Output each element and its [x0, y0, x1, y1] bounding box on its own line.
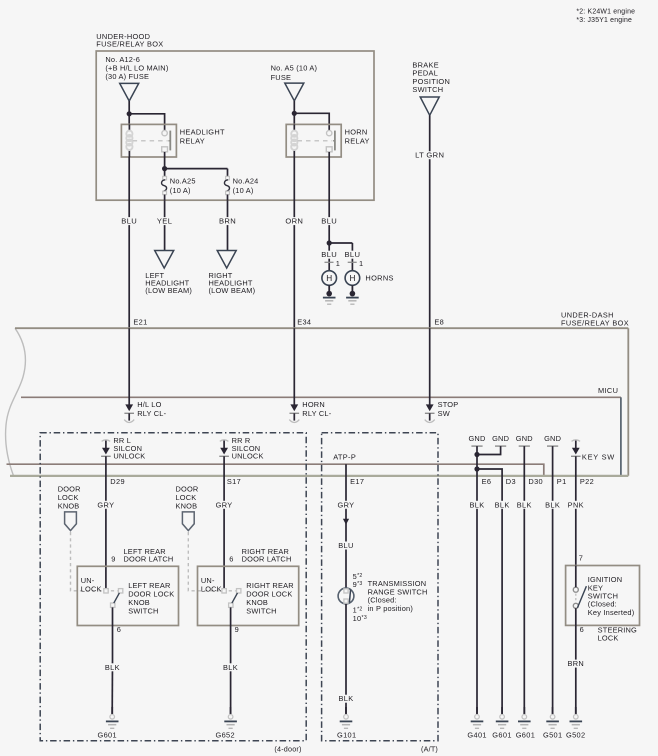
label GND 4: [544, 434, 561, 443]
tick GND 1: [471, 445, 482, 447]
svg-text:FUSE/RELAY BOX: FUSE/RELAY BOX: [96, 40, 163, 49]
label left headlight: [145, 271, 192, 295]
wire jog to D3: [477, 469, 512, 714]
svg-text:BLK: BLK: [469, 500, 484, 509]
label G401: [467, 731, 486, 740]
fuse A24: [224, 169, 229, 201]
left rear door latch box: [77, 566, 178, 625]
svg-text:7: 7: [579, 553, 583, 562]
wire GND2 join: [477, 446, 501, 454]
svg-text:UNLOCK: UNLOCK: [113, 452, 145, 461]
dash-dot box 4-door section: [40, 433, 306, 741]
fuse A24 label: [233, 176, 259, 195]
fuse A5 connector triangle: [285, 83, 304, 101]
wire RR R to S17: [223, 456, 225, 588]
label STOP SW: [438, 400, 459, 418]
svg-text:(A/T): (A/T): [421, 745, 438, 754]
label horn relay: [345, 127, 370, 145]
svg-text:1: 1: [336, 259, 340, 268]
wire node to horn 2: [329, 242, 352, 244]
svg-text:BRN: BRN: [567, 659, 584, 668]
svg-text:KNOB: KNOB: [58, 501, 80, 510]
pin 7 ignition switch: [579, 553, 583, 562]
label (A/T): [421, 745, 438, 754]
svg-text:SWITCH: SWITCH: [412, 85, 443, 94]
wire right latch to ground BLK: [221, 607, 241, 714]
svg-text:DOOR LATCH: DOOR LATCH: [242, 555, 292, 564]
wire branch to headlight relay switch: [129, 114, 164, 131]
label G601 b: [492, 731, 511, 740]
svg-text:BLU: BLU: [344, 250, 360, 259]
arrow STOP SW into MICU: [425, 404, 435, 422]
wire fuse A12-6 to headlight relay coil: [127, 101, 132, 124]
svg-text:BLK: BLK: [545, 500, 560, 509]
label G101: [337, 731, 356, 740]
door lock knob symbol right: [182, 512, 194, 531]
svg-text:BLK: BLK: [105, 663, 120, 672]
ground horn 2: [346, 285, 359, 304]
tick GND 2: [495, 445, 506, 447]
label IGNITION KEY SWITCH: [588, 575, 635, 617]
svg-text:GRY: GRY: [338, 500, 355, 509]
svg-text:E17: E17: [350, 477, 364, 486]
wire to horn 1 BLU: [320, 243, 339, 271]
svg-text:HORN: HORN: [302, 400, 325, 409]
label LEFT REAR DOOR LATCH: [124, 547, 174, 564]
note engine variants: [576, 8, 635, 24]
fuse A25 label: [170, 176, 196, 195]
connector E21: [133, 317, 147, 326]
ground horn 1: [323, 285, 336, 304]
ignition key switch box: [566, 566, 640, 626]
svg-text:HEADLIGHT: HEADLIGHT: [180, 127, 225, 136]
wire horn relay coil to E34 ORN: [284, 157, 305, 328]
connector P22: [580, 477, 594, 486]
svg-text:P1: P1: [557, 477, 567, 486]
svg-text:in P position): in P position): [368, 604, 413, 613]
wire headlight relay switch to fuses node: [162, 152, 167, 171]
label H/L LO RLY CL-: [137, 400, 166, 418]
pin 6 ignition switch: [580, 625, 584, 634]
label G601 c: [516, 731, 535, 740]
mechanical link right knob: [188, 532, 235, 591]
svg-text:BLK: BLK: [495, 500, 510, 509]
right rear door latch box: [198, 566, 299, 625]
svg-text:P22: P22: [580, 477, 594, 486]
label KEY SW: [582, 452, 615, 461]
wire horn relay switch BLU to horns node: [320, 152, 339, 246]
svg-text:ATP-P: ATP-P: [333, 452, 356, 461]
wire label GRY left: [95, 500, 116, 509]
connector E17: [350, 477, 364, 486]
svg-text:G652: G652: [216, 731, 235, 740]
tick GND 3: [519, 445, 530, 447]
under-dash box top edge: [15, 327, 628, 329]
horn 1: [322, 271, 337, 286]
wire left latch to ground BLK: [102, 607, 122, 714]
ground G601 left: [106, 707, 119, 728]
fuse A5 label: [271, 64, 318, 82]
wire fuse A25 to left headlight YEL: [155, 201, 174, 251]
svg-text:BLU: BLU: [338, 541, 353, 550]
wire GND3 to D30: [514, 446, 534, 714]
ground G501: [546, 707, 559, 728]
svg-text:*3: J35Y1 engine: *3: J35Y1 engine: [576, 17, 632, 24]
label UNDER-HOOD FUSE/RELAY BOX: [96, 32, 163, 49]
connector S17: [227, 477, 241, 486]
mechanical link left knob: [71, 532, 118, 591]
label RIGHT REAR DOOR LOCK KNOB SWITCH: [246, 581, 293, 616]
svg-text:BLU: BLU: [321, 250, 337, 259]
svg-text:G601: G601: [516, 731, 535, 740]
svg-text:No. A5 (10 A): No. A5 (10 A): [271, 64, 318, 73]
svg-text:GND: GND: [492, 434, 509, 443]
svg-text:PNK: PNK: [568, 500, 584, 509]
wire fuse A24 to right headlight BRN: [217, 201, 238, 251]
svg-text:E21: E21: [133, 317, 147, 326]
label GND 2: [492, 434, 509, 443]
wire E34 inside band: [293, 328, 295, 405]
brake pedal switch connector triangle: [420, 97, 439, 115]
label G502: [566, 731, 585, 740]
svg-text:GND: GND: [544, 434, 561, 443]
relay U1 headlight relay: [121, 124, 176, 157]
under-dash box torn left edge: [6, 328, 26, 476]
label (4-door): [274, 745, 301, 754]
connector E8: [434, 317, 444, 326]
ground G401: [471, 707, 484, 728]
label RR R SILCON UNLOCK: [232, 436, 264, 460]
label HORN RLY CL-: [302, 400, 331, 418]
under-hood fuse/relay box: [96, 51, 374, 200]
label STEERING LOCK: [598, 625, 637, 642]
door lock knob symbol left: [65, 512, 77, 531]
svg-text:BLK: BLK: [223, 663, 238, 672]
wire E21 inside band: [128, 328, 130, 405]
label LEFT REAR DOOR LOCK KNOB SWITCH: [128, 581, 174, 616]
arrow RR L SILCON UNLOCK from MICU: [101, 440, 111, 457]
label G652: [216, 731, 235, 740]
svg-text:G601: G601: [492, 731, 511, 740]
arrow on wire atp-p: [343, 519, 349, 525]
connector P1: [557, 477, 567, 486]
svg-text:H: H: [326, 274, 332, 283]
wire label GRY right: [214, 500, 235, 509]
wire node to fuse A24: [165, 168, 228, 170]
svg-text:9: 9: [235, 625, 239, 634]
label HORNS: [365, 274, 393, 283]
svg-text:S17: S17: [227, 477, 241, 486]
svg-text:G401: G401: [467, 731, 486, 740]
wire GND1 to E6: [467, 446, 487, 714]
svg-text:GND: GND: [516, 434, 533, 443]
svg-text:SWITCH: SWITCH: [246, 607, 276, 616]
wire brake pedal switch to E8 LT GRN: [414, 115, 445, 328]
switch ignition key: [573, 586, 586, 608]
ground G101: [340, 707, 353, 728]
svg-text:RLY CL-: RLY CL-: [302, 409, 331, 418]
svg-text:(30 A) FUSE: (30 A) FUSE: [105, 72, 149, 81]
svg-text:(10 A): (10 A): [233, 186, 254, 195]
svg-text:YEL: YEL: [157, 217, 172, 226]
label RIGHT REAR DOOR LATCH: [242, 547, 292, 564]
label GND 1: [468, 434, 485, 443]
connector D3: [506, 477, 516, 486]
label TRANSMISSION RANGE SWITCH: [368, 579, 428, 613]
connector D30: [528, 477, 543, 486]
label UNDER-DASH FUSE/RELAY BOX: [561, 311, 629, 328]
svg-text:1: 1: [359, 259, 363, 268]
ground G502: [570, 707, 583, 728]
svg-text:Key Inserted): Key Inserted): [588, 608, 635, 617]
label G601 left: [98, 731, 117, 740]
svg-text:GRY: GRY: [97, 500, 114, 509]
svg-text:(LOW BEAM): (LOW BEAM): [209, 286, 256, 295]
wire ATP-P to E17: [345, 464, 347, 588]
svg-text:G501: G501: [543, 731, 562, 740]
micu right edge: [620, 397, 622, 475]
label DOOR LOCK KNOB left: [58, 484, 81, 510]
svg-text:HORN: HORN: [345, 127, 368, 136]
svg-text:GRY: GRY: [216, 500, 233, 509]
svg-text:D3: D3: [506, 477, 516, 486]
label headlight relay: [180, 127, 225, 145]
wire GND4 to P1: [543, 446, 563, 714]
label ATP-P: [333, 452, 356, 461]
pin 1 horn 2: [359, 259, 363, 268]
label brake pedal position switch: [412, 60, 450, 94]
tick GND 4: [547, 445, 558, 447]
ground G652: [224, 707, 237, 728]
band bottom edge: [10, 475, 628, 477]
relay U2 horn relay: [286, 124, 341, 157]
svg-text:LOCK: LOCK: [598, 634, 619, 643]
svg-text:FUSE: FUSE: [271, 73, 292, 82]
wire transmission switch to ground BLK: [336, 604, 356, 714]
wire headlight relay coil to E21 BLU: [120, 157, 139, 328]
pins 5 9 transmission switch: [353, 572, 363, 589]
wire to horn 2 BLU: [343, 243, 362, 271]
arrow HORN RLY CL- into MICU: [289, 404, 299, 422]
wire branch to horn relay switch: [294, 113, 329, 130]
svg-text:E6: E6: [482, 477, 492, 486]
wire KEY SW to P22 PNK: [565, 456, 586, 565]
svg-text:BRN: BRN: [219, 217, 236, 226]
svg-text:G101: G101: [337, 731, 356, 740]
horn 2: [345, 271, 360, 286]
svg-text:LOCK: LOCK: [81, 584, 102, 593]
under-dash box right edge: [627, 328, 629, 476]
label UN-LOCK left: [81, 576, 102, 593]
svg-text:No.A24: No.A24: [233, 176, 259, 185]
svg-text:D30: D30: [528, 477, 543, 486]
svg-text:UNLOCK: UNLOCK: [232, 452, 264, 461]
label RR L SILCON UNLOCK: [113, 436, 145, 460]
svg-text:9: 9: [111, 554, 115, 563]
label G501: [543, 731, 562, 740]
svg-text:LT GRN: LT GRN: [415, 151, 444, 160]
svg-text:D29: D29: [110, 477, 125, 486]
wire label GRY at: [336, 500, 357, 509]
svg-text:MICU: MICU: [598, 386, 618, 395]
switch left door lock knob: [104, 589, 123, 608]
svg-text:BLU: BLU: [321, 217, 337, 226]
arrow KEY SW from MICU: [571, 440, 581, 457]
right headlight connector triangle: [217, 251, 236, 269]
left headlight connector triangle: [155, 251, 174, 269]
svg-text:GND: GND: [468, 434, 485, 443]
svg-text:STOP: STOP: [438, 400, 459, 409]
pin 6 right latch: [229, 554, 233, 563]
svg-text:RELAY: RELAY: [345, 137, 370, 146]
svg-text:RLY CL-: RLY CL-: [137, 409, 166, 418]
svg-text:6: 6: [229, 554, 233, 563]
svg-text:E34: E34: [297, 317, 311, 326]
svg-text:HORNS: HORNS: [365, 274, 393, 283]
svg-text:FUSE/RELAY BOX: FUSE/RELAY BOX: [561, 319, 629, 328]
svg-text:6: 6: [580, 625, 584, 634]
ground G601 c: [518, 707, 531, 728]
wire RR L to D29: [105, 456, 107, 588]
label right headlight: [209, 271, 256, 295]
arrow RR R SILCON UNLOCK from MICU: [219, 440, 229, 457]
dash-dot box A/T section: [322, 433, 438, 741]
switch right door lock knob: [222, 589, 241, 608]
svg-text:BLU: BLU: [121, 217, 137, 226]
connector E34: [297, 317, 311, 326]
micu top edge: [21, 396, 621, 398]
connector D29: [110, 477, 125, 486]
svg-text:G601: G601: [98, 731, 117, 740]
svg-text:SW: SW: [438, 409, 450, 418]
ground G601 b: [496, 707, 509, 728]
svg-text:(4-door): (4-door): [274, 745, 301, 754]
svg-text:No.A25: No.A25: [170, 176, 196, 185]
label DOOR LOCK KNOB right: [176, 484, 199, 510]
svg-text:ORN: ORN: [285, 217, 303, 226]
pin 6 left latch: [117, 625, 121, 634]
label UN-LOCK right: [201, 576, 222, 593]
fuse A12-6 connector triangle: [120, 83, 139, 101]
label GND 3: [516, 434, 533, 443]
wire label BLU at: [337, 541, 356, 550]
wire fuse A5 to horn relay coil: [292, 101, 297, 125]
pin 1 horn 1: [336, 259, 340, 268]
fuse A25: [162, 169, 167, 201]
fuse A12-6 label: [105, 55, 168, 81]
svg-text:KNOB: KNOB: [176, 501, 198, 510]
pin 9 left latch: [111, 554, 115, 563]
svg-text:(10 A): (10 A): [170, 186, 191, 195]
wire E8 inside band: [429, 328, 431, 405]
pin 9 right latch: [235, 625, 239, 634]
svg-text:DOOR LATCH: DOOR LATCH: [124, 555, 174, 564]
svg-text:KEY SW: KEY SW: [582, 452, 615, 461]
pins 1 10 transmission switch: [353, 606, 368, 623]
micu bottom edge with step: [7, 464, 544, 476]
svg-text:SWITCH: SWITCH: [128, 607, 158, 616]
svg-text:E8: E8: [434, 317, 444, 326]
svg-text:H: H: [349, 274, 355, 283]
svg-text:*2: K24W1 engine: *2: K24W1 engine: [576, 8, 635, 15]
wire into ignition switch: [575, 566, 577, 588]
svg-text:LOCK: LOCK: [201, 584, 222, 593]
svg-text:H/L LO: H/L LO: [137, 400, 161, 409]
svg-text:BLK: BLK: [338, 694, 353, 703]
svg-text:(LOW BEAM): (LOW BEAM): [145, 286, 192, 295]
svg-text:BLK: BLK: [517, 500, 532, 509]
svg-text:RELAY: RELAY: [180, 137, 205, 146]
svg-text:6: 6: [117, 625, 121, 634]
wire ignition switch to ground BRN: [565, 608, 586, 714]
svg-text:G502: G502: [566, 731, 585, 740]
connector E6: [482, 477, 492, 486]
label MICU: [598, 386, 618, 395]
transmission range switch: [338, 588, 354, 604]
arrow H/L LO RLY CL- into MICU: [124, 404, 134, 422]
